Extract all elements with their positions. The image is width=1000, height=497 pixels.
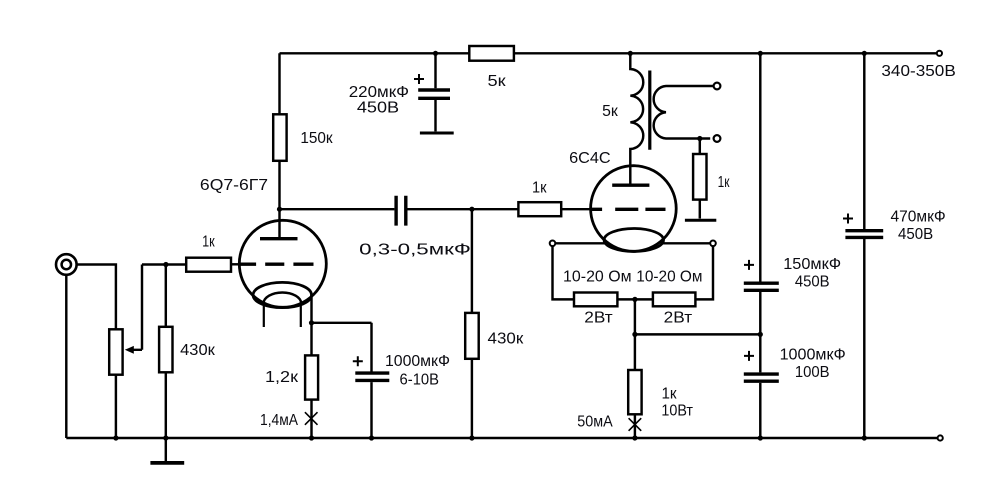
svg-text:6С4С: 6С4С (569, 150, 611, 167)
svg-text:150к: 150к (300, 130, 333, 147)
svg-text:450В: 450В (898, 226, 933, 243)
svg-text:450В: 450В (795, 274, 830, 291)
svg-text:1000мкФ: 1000мкФ (780, 346, 846, 363)
svg-text:220мкФ: 220мкФ (349, 84, 409, 101)
svg-text:5к: 5к (488, 73, 506, 90)
svg-text:0,3-0,5мкФ: 0,3-0,5мкФ (359, 241, 471, 258)
svg-text:10Вт: 10Вт (661, 403, 693, 420)
svg-text:2Вт: 2Вт (584, 309, 612, 326)
svg-text:340-350В: 340-350В (881, 63, 955, 80)
svg-text:1к: 1к (718, 174, 730, 191)
svg-text:5к: 5к (602, 103, 618, 120)
svg-text:10-20 Ом: 10-20 Ом (636, 268, 702, 285)
svg-text:1,2к: 1,2к (265, 369, 298, 386)
svg-text:6Q7-6Г7: 6Q7-6Г7 (200, 177, 268, 194)
svg-text:100В: 100В (795, 364, 830, 381)
svg-text:6-10В: 6-10В (400, 371, 440, 388)
svg-text:50мА: 50мА (577, 414, 613, 431)
svg-text:10-20 Ом: 10-20 Ом (563, 268, 632, 285)
svg-text:1000мкФ: 1000мкФ (385, 353, 450, 370)
svg-text:470мкФ: 470мкФ (891, 209, 946, 226)
svg-text:1,4мА: 1,4мА (260, 412, 299, 429)
svg-text:150мкФ: 150мкФ (783, 256, 841, 273)
svg-text:450В: 450В (357, 100, 399, 117)
svg-text:1к: 1к (661, 385, 676, 402)
svg-text:2Вт: 2Вт (664, 309, 692, 326)
svg-text:1к: 1к (202, 233, 215, 250)
svg-text:1к: 1к (532, 180, 547, 197)
svg-text:430к: 430к (488, 331, 524, 348)
svg-text:430к: 430к (180, 342, 215, 359)
